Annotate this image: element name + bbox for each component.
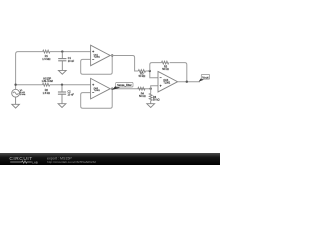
ground below V1 <box>12 97 20 108</box>
CircuitLab logo <box>9 156 38 164</box>
junction node at R4/R6/+input <box>150 88 152 90</box>
svg-text:LAB: LAB <box>32 160 38 164</box>
svg-text:CIRCUIT: CIRCUIT <box>9 156 32 162</box>
C1 labels <box>68 57 75 63</box>
wire OA2 output to R4 and junction <box>110 88 151 90</box>
ground below C2 <box>58 104 66 108</box>
resistor R5 <box>162 61 169 64</box>
svg-text:1.5 kΩ: 1.5 kΩ <box>43 92 50 95</box>
svg-text:http://circuitlab.com/c/6rf55a: http://circuitlab.com/c/6rf55a8d6232 <box>47 160 96 164</box>
wire OA1 output to corner down to R3 <box>110 55 138 71</box>
R1 labels <box>42 55 50 61</box>
capacitor C2 <box>58 85 66 104</box>
V1 labels <box>20 90 26 96</box>
svg-text:50 kΩ: 50 kΩ <box>139 95 146 98</box>
svg-text:50 kΩ: 50 kΩ <box>162 68 169 71</box>
resistor R4 <box>138 87 145 90</box>
R2 labels below <box>43 89 50 95</box>
wire row2 from V1 junction to R2 <box>16 84 43 86</box>
wire R3 to OA3 - input with feedback node <box>146 71 159 78</box>
svg-text:TL081: TL081 <box>94 90 101 92</box>
R5 value labels <box>162 66 169 72</box>
C2 labels <box>68 91 75 97</box>
svg-text:50 kΩ: 50 kΩ <box>139 75 146 78</box>
R3 value labels <box>139 73 146 79</box>
OA2 feedback loop wire <box>81 89 113 109</box>
OA1 output node <box>111 54 113 56</box>
wire junction up to OA3 + input <box>151 86 158 89</box>
svg-text:TL081: TL081 <box>94 57 101 59</box>
wire OA3 output <box>178 81 201 83</box>
OA1 feedback loop wire <box>81 55 113 74</box>
voltage source V1 <box>12 89 20 97</box>
resistor R1 <box>43 50 50 53</box>
R4 value labels <box>139 92 146 98</box>
svg-text:Sense_Filter: Sense_Filter <box>117 83 132 87</box>
wire R1 to OA1 + input <box>50 51 91 53</box>
resistor R3 <box>138 70 145 73</box>
OA2 output node <box>111 88 113 90</box>
svg-text:1 kHz: 1 kHz <box>20 94 26 96</box>
resistor R2 (HS15P sensor) <box>43 83 50 86</box>
node C1 tap <box>61 50 63 52</box>
node at R3/R5 feedback junction <box>149 70 151 72</box>
svg-text:10 nF: 10 nF <box>68 60 75 63</box>
op-amp OA1 (TL081 buffer) <box>91 45 111 65</box>
R6 value labels <box>153 96 160 102</box>
R2 labels above <box>42 78 53 84</box>
svg-text:50 kΩ: 50 kΩ <box>153 98 160 101</box>
op-amp OA3 (TL081 difference) <box>158 71 178 92</box>
svg-text:TL081: TL081 <box>163 81 170 84</box>
node junction at V1 branch <box>14 84 16 86</box>
output feedback node <box>186 81 188 83</box>
bottom banner <box>0 153 220 165</box>
net flag Vout box <box>201 74 209 79</box>
net flag Vout pointer <box>199 78 204 82</box>
svg-text:Vout: Vout <box>202 75 208 79</box>
wire R2 to OA2 + input <box>50 84 91 86</box>
net flag Sense_Filter box <box>116 82 133 87</box>
feedback wire up and over R5 <box>150 63 187 82</box>
node C2 tap <box>61 84 63 86</box>
wire from V1 up left vertical and top row to R1 <box>16 52 43 90</box>
ground below C1 <box>58 70 66 74</box>
op-amp OA2 (TL081 buffer) <box>91 78 111 99</box>
svg-text:1.5 MΩ: 1.5 MΩ <box>42 58 50 61</box>
capacitor C1 <box>58 52 66 71</box>
svg-text:1.8k–5.6M: 1.8k–5.6M <box>42 80 53 83</box>
resistor R6 vertical <box>149 89 152 104</box>
ground below R6 <box>147 104 155 108</box>
net flag Sense_Filter pointer <box>112 85 120 90</box>
svg-text:10 nF: 10 nF <box>68 93 75 96</box>
